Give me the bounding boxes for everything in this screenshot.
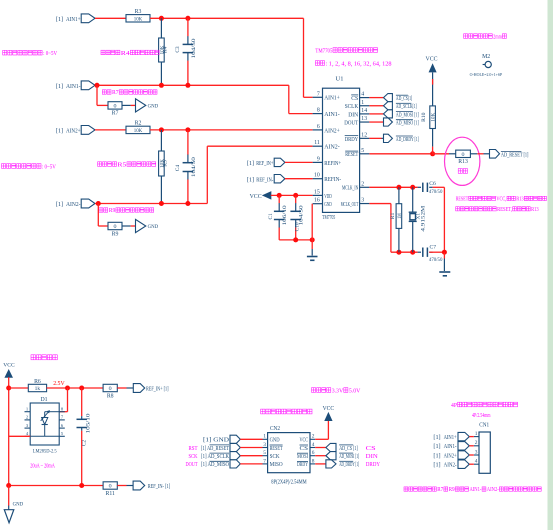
capacitor C10 [295, 195, 297, 203]
wire 2.5V net [47, 387, 104, 389]
svg-text:CS: CS [351, 95, 358, 102]
svg-text:AIN1+: AIN1+ [66, 16, 81, 23]
svg-text:8P(2X4P)/2.54MM: 8P(2X4P)/2.54MM [271, 478, 306, 485]
svg-text:R5: R5 [163, 160, 169, 167]
svg-text:U1: U1 [336, 76, 344, 83]
svg-text:13: 13 [361, 116, 367, 122]
junction C10 gnd [293, 237, 298, 242]
wire REF_IN- [285, 178, 313, 180]
svg-text:[1]: [1] [56, 16, 63, 23]
port AD_MOSI [384, 110, 393, 118]
svg-text:[1]: [1] [247, 176, 254, 183]
U1 pin 12 DRDY [360, 137, 370, 139]
svg-text:AIN2+: AIN2+ [444, 452, 457, 459]
svg-text:VCC: VCC [250, 194, 262, 200]
port CN2 left [1] GND [230, 435, 240, 443]
note remove R9 [99, 208, 103, 212]
junction RESET/R10 [430, 151, 435, 156]
junction MCLKOUT/X1 [410, 250, 415, 255]
svg-text:0: 0 [114, 104, 117, 110]
D1 zener symbol [42, 418, 48, 425]
CN2 pin 4 CS [310, 447, 315, 449]
diode D1 LM285 body [30, 403, 59, 445]
svg-text:2.5V: 2.5V [53, 381, 65, 387]
svg-text:20uA ~ 20mA: 20uA ~ 20mA [30, 463, 55, 469]
resistor R8 [103, 384, 117, 391]
CN2 pin 5 SCK [263, 455, 268, 457]
svg-text:VCC,: VCC, [496, 196, 506, 202]
svg-text:3: 3 [475, 449, 478, 455]
svg-text:0: 0 [109, 386, 112, 392]
junction AIN2-/R5 [159, 201, 164, 206]
svg-text:[1]: [1] [433, 462, 440, 469]
note remove R7 [102, 90, 106, 94]
svg-text:C4: C4 [175, 165, 181, 172]
svg-text:SCK: SCK [270, 453, 280, 460]
junction AIN1+/C3 [185, 16, 190, 21]
svg-text:VCC: VCC [323, 406, 335, 412]
svg-text:C1: C1 [268, 213, 274, 220]
wire R9 to GND [122, 225, 131, 227]
svg-text:[1] AD_SCLK: [1] AD_SCLK [201, 453, 229, 460]
svg-text:C7: C7 [430, 245, 437, 251]
svg-text:REF_IN- [1]: REF_IN- [1] [148, 483, 171, 490]
junction MCLKOUT/R1 [396, 250, 401, 255]
svg-text:GND: GND [13, 502, 24, 508]
note input range top [3, 50, 7, 55]
svg-text:5: 5 [263, 450, 266, 456]
wire AIN2+ net [150, 129, 313, 131]
ground GND AIN1- [136, 99, 146, 112]
svg-text:2: 2 [361, 181, 364, 187]
svg-text:RESET,: RESET, [497, 207, 512, 213]
svg-text:MCLK_IN: MCLK_IN [342, 185, 358, 192]
capacitor C2 [81, 388, 83, 416]
svg-text:C3: C3 [175, 46, 181, 53]
U1 pin 16 GND [313, 203, 323, 205]
wire R11 to port [117, 485, 126, 487]
svg-text:GND: GND [148, 104, 159, 110]
junction AIN2+/C4 [185, 127, 190, 132]
svg-text:AD_SCLK[1]: AD_SCLK[1] [396, 103, 417, 110]
wire ref vertical [8, 388, 10, 486]
svg-text:R7: R7 [437, 487, 443, 493]
wire AIN1+ to R3 [95, 17, 126, 19]
connector CN1 body [479, 432, 490, 473]
svg-text:CS: CS [300, 445, 309, 452]
capacitor C4 [187, 130, 189, 155]
resistor R7 [108, 102, 122, 109]
junction bottom/C2 [79, 483, 84, 488]
wire AIN2+ to R2 [95, 129, 126, 131]
svg-text:16: 16 [314, 198, 320, 204]
svg-text:14: 14 [361, 108, 367, 114]
junction MCLKIN/R1 [396, 185, 401, 190]
svg-text:15: 15 [314, 189, 320, 195]
svg-text:VCC: VCC [426, 57, 438, 63]
D1 internal wiring [45, 411, 60, 413]
U1 pin 3 MCLK_OUT [360, 203, 370, 205]
wire MCLK_IN net [369, 186, 417, 188]
capacitor C1 [278, 195, 280, 203]
svg-text:1k: 1k [35, 386, 41, 392]
junction AIN1-/R7 [95, 83, 100, 88]
U1 pin 2 MCLK_IN [360, 186, 370, 188]
note input range mid [2, 164, 6, 169]
junction MCLKIN/X1 [410, 185, 415, 190]
svg-text:6: 6 [312, 450, 315, 456]
svg-text:R6: R6 [34, 379, 41, 385]
svg-text:C2: C2 [82, 440, 88, 447]
junction AIN1+/R4 [159, 16, 164, 21]
junction bottom left [6, 483, 11, 488]
wire VDD net [271, 194, 313, 196]
svg-text:DIN: DIN [366, 454, 379, 460]
svg-text:4: 4 [475, 459, 478, 465]
junction D1 [65, 386, 70, 391]
wire CN2 AD_DRDY [1] [315, 463, 326, 465]
svg-text:12: 12 [361, 132, 367, 138]
svg-text:[1] GND: [1] GND [203, 437, 229, 444]
connector CN2 body [268, 433, 310, 473]
svg-text:10: 10 [314, 173, 320, 179]
wire CN1 [469, 436, 474, 438]
svg-text:104/50: 104/50 [299, 205, 305, 226]
port AD_RESET [490, 150, 500, 159]
svg-text:3: 3 [361, 198, 364, 204]
junction AIN1-/C3 [185, 83, 190, 88]
svg-text:D1: D1 [40, 397, 47, 403]
svg-text:: 1, 2, 4, 8, 16, 32, 64, 128: : 1, 2, 4, 8, 16, 32, 64, 128 [326, 60, 392, 67]
svg-text:5: 5 [361, 148, 364, 154]
svg-text:0: 0 [109, 484, 112, 490]
svg-text:AD_DRDY [1]: AD_DRDY [1] [339, 461, 359, 468]
CN1 pin 4 [474, 463, 479, 465]
port CN1 AIN1+ [458, 432, 469, 440]
svg-text:DOUT: DOUT [186, 462, 198, 468]
junction gnd rail [310, 237, 315, 242]
CN2 pin 1 GND [263, 438, 268, 440]
ground GND AIN2- [136, 219, 146, 232]
svg-text:[1]: [1] [247, 160, 254, 167]
svg-text:AIN2-: AIN2- [444, 462, 457, 469]
port CN2 left [1] AD_RESET [230, 443, 240, 451]
U1 pin 6 AIN2+ [313, 129, 323, 131]
U1 pin 13 DOUT [360, 121, 370, 123]
D1 pin 3 [25, 427, 31, 429]
ground bars U1 [307, 256, 318, 258]
svg-text:R10: R10 [421, 112, 427, 122]
svg-text:AIN2-: AIN2- [324, 144, 340, 151]
resistor R10 [432, 73, 434, 106]
svg-text:REF_IN-: REF_IN- [256, 176, 273, 183]
svg-text:0: 0 [462, 152, 465, 158]
junction VDD/C1 [277, 193, 282, 198]
svg-text:R1: R1 [390, 213, 396, 220]
svg-text:R13: R13 [458, 159, 468, 165]
resistor R11 [103, 482, 117, 489]
svg-text:RESET: RESET [345, 151, 358, 158]
note dual header [261, 409, 265, 414]
wire AIN2- to R9 [97, 204, 99, 227]
svg-text:6: 6 [317, 124, 320, 130]
svg-text:AIN2-: AIN2- [487, 487, 499, 493]
svg-text:1: 1 [263, 434, 266, 440]
svg-text:[1]: [1] [56, 201, 63, 208]
resistor R13 [456, 150, 471, 157]
svg-text:VCC: VCC [300, 437, 309, 444]
wire R8 to port [117, 387, 126, 389]
svg-text:GND: GND [148, 224, 159, 230]
svg-text:8: 8 [312, 458, 315, 464]
svg-text:2: 2 [312, 434, 315, 440]
wire R7 to GND [122, 104, 131, 106]
U1 pin 4 CS [360, 97, 370, 99]
svg-text:: 0~5V: : 0~5V [43, 50, 57, 57]
svg-text:[1] AD_MISO: [1] AD_MISO [201, 461, 229, 468]
svg-text:O-HOLE=2.0+1+SP: O-HOLE=2.0+1+SP [470, 72, 503, 77]
svg-text:7: 7 [263, 458, 266, 464]
svg-text:AIN1-: AIN1- [66, 83, 81, 90]
wire SCLK [369, 105, 383, 107]
svg-text:AD_MOSI [1]: AD_MOSI [1] [339, 453, 359, 460]
svg-text:4: 4 [361, 92, 364, 98]
svg-text:1M: 1M [397, 213, 403, 219]
note signal ground [404, 487, 408, 491]
svg-text:[1] AD_RESET: [1] AD_RESET [201, 445, 229, 452]
svg-text:AIN1-: AIN1- [324, 111, 340, 118]
note R13 not mounted [458, 169, 462, 174]
svg-text:GND: GND [270, 437, 280, 444]
wire CN2 left [240, 455, 262, 457]
junction C2 [79, 386, 84, 391]
wire CN2 AD_MOSI [1] [315, 455, 326, 457]
svg-text:4: 4 [312, 442, 315, 448]
port AD_DRDY [384, 134, 393, 142]
svg-text:M2: M2 [482, 54, 490, 60]
resistor R9 [108, 222, 122, 229]
port CN2 left [1] AD_MISO [230, 460, 240, 468]
svg-text:SCK: SCK [189, 454, 199, 460]
svg-text:3: 3 [263, 442, 266, 448]
D1 pin 5 [59, 435, 65, 437]
capacitor C7 [418, 251, 421, 253]
note mounting hole [464, 34, 468, 39]
wire CN1 [469, 445, 474, 447]
svg-text:REFIN+: REFIN+ [324, 160, 341, 167]
wire AIN2- net [95, 203, 207, 205]
wire DRDY [369, 137, 381, 139]
svg-text:0: 0 [114, 224, 117, 230]
CN1 pin 1 [474, 436, 479, 438]
svg-text:REF_IN+ [1]: REF_IN+ [1] [146, 385, 169, 392]
svg-text:8: 8 [317, 108, 320, 114]
wire CN2 VCC [315, 438, 328, 440]
D1 pin 1 [25, 411, 31, 413]
resistor R5 [160, 130, 162, 151]
svg-text:DOUT: DOUT [344, 119, 358, 126]
port CN1 AIN1- [458, 442, 469, 450]
U1 pin 1 SCLK [360, 105, 370, 107]
note reference source [31, 355, 36, 360]
svg-text:CN2: CN2 [270, 426, 280, 432]
svg-text:REF_IN+: REF_IN+ [256, 160, 273, 167]
note remove R5 [98, 162, 102, 167]
svg-text:R7: R7 [112, 111, 119, 117]
svg-text:AD_CS[1]: AD_CS[1] [396, 95, 412, 102]
wire CN2 left [240, 447, 262, 449]
CN1 pin 2 [474, 445, 479, 447]
wire CN1 [469, 454, 474, 456]
svg-text:VCC: VCC [3, 363, 15, 369]
svg-text:2: 2 [475, 440, 478, 446]
svg-text:RST: RST [189, 446, 198, 452]
svg-text:AD_CS [1]: AD_CS [1] [339, 445, 358, 452]
svg-text:10K: 10K [134, 16, 143, 22]
svg-text:R4: R4 [163, 47, 169, 54]
port REF_IN+ out [133, 384, 144, 393]
wire RESET to R13 [433, 153, 449, 155]
svg-text:4P: 4P [451, 402, 457, 409]
note remove R4 [101, 50, 105, 55]
U1 pin 11 AIN2- [313, 145, 323, 147]
svg-text:AD_RESET [1]: AD_RESET [1] [501, 151, 529, 158]
svg-text:AIN2-: AIN2- [66, 201, 81, 208]
wire CN2 left [240, 463, 262, 465]
resistor R1 [398, 187, 400, 203]
svg-text:: 0~5V: : 0~5V [42, 163, 56, 170]
U1 pin 5 RESET [360, 153, 370, 155]
wire to crystal gnd [443, 252, 445, 258]
svg-text:AIN2+: AIN2+ [324, 127, 340, 134]
svg-text:11: 11 [314, 140, 320, 146]
svg-text:R3: R3 [135, 9, 142, 15]
svg-text:R9: R9 [449, 487, 455, 493]
wire DOUT [369, 121, 383, 123]
svg-text:AIN1-: AIN1- [469, 487, 481, 493]
svg-text:DRDY: DRDY [366, 462, 381, 468]
ground GND ref [4, 510, 14, 523]
svg-text:2mm: 2mm [493, 34, 502, 40]
U1 pin 15 VDD [313, 194, 323, 196]
port CN1 AIN2- [458, 460, 469, 468]
wire C7 to gnd [429, 251, 444, 253]
svg-text:GND: GND [324, 201, 332, 208]
svg-text:3.3V: 3.3V [332, 387, 344, 394]
port AD_CS [384, 94, 393, 102]
U1 pin 9 REFIN+ [313, 161, 323, 163]
wire to R6 [9, 387, 29, 389]
port CN2 AD_DRDY [1] [326, 460, 336, 468]
svg-text:REFIN-: REFIN- [324, 176, 341, 183]
wire AIN1- net [95, 84, 289, 86]
U1 pin 10 REFIN- [313, 178, 323, 180]
U1 pin 7 AIN1+ [313, 96, 323, 98]
port CN1 AIN2+ [458, 451, 469, 459]
junction AIN1-/R4 [159, 83, 164, 88]
D1 pin 7 [59, 419, 65, 421]
port AD_SCLK [384, 102, 393, 110]
svg-text:VDD: VDD [324, 193, 332, 200]
svg-text:106/10: 106/10 [282, 205, 288, 226]
wire RESET net [369, 153, 432, 155]
CN1 pin 3 [474, 454, 479, 456]
svg-text:SCLK: SCLK [345, 103, 359, 110]
resistor R4 [160, 18, 162, 38]
svg-text:AIN1+: AIN1+ [444, 434, 457, 441]
junction AIN2-/R9 [96, 201, 101, 206]
svg-text:AD_MISO [1]: AD_MISO [1] [396, 120, 419, 127]
port CN2 AD_CS [1] [326, 443, 336, 451]
U1 pin 8 AIN1- [313, 113, 323, 115]
resistor R6 [28, 384, 46, 391]
crystal X1 [412, 187, 414, 212]
svg-text:4P/2.54mm: 4P/2.54mm [472, 413, 491, 419]
svg-text:R13: R13 [516, 196, 524, 202]
svg-text:4.9152M: 4.9152M [421, 205, 427, 231]
note RESET tied to VCC line2 [456, 207, 460, 211]
wire D1 pin8 up [67, 388, 69, 412]
svg-text:470/50: 470/50 [429, 189, 443, 195]
svg-text:[1]: [1] [56, 83, 63, 90]
wire CN2 left [240, 438, 262, 440]
svg-text:AD_DRDY [1]: AD_DRDY [1] [396, 136, 419, 143]
junction AIN2-/C4 [185, 201, 190, 206]
svg-text:DRDY: DRDY [345, 136, 359, 143]
junction gnd crystal [442, 250, 447, 255]
svg-text:9: 9 [317, 156, 320, 162]
wire D1 pin4 [9, 435, 31, 437]
svg-text:DIN: DIN [348, 111, 358, 118]
wire DIN [369, 113, 383, 115]
svg-text:AIN2+: AIN2+ [66, 128, 81, 135]
svg-text:MISO: MISO [270, 461, 283, 468]
svg-text:R5: R5 [117, 162, 126, 168]
svg-text:104/50: 104/50 [191, 38, 197, 59]
svg-text:105/10: 105/10 [85, 413, 91, 434]
D1 pin 6 [59, 427, 65, 429]
wire to GND ref [8, 486, 10, 506]
svg-text:470/50: 470/50 [429, 257, 443, 263]
svg-text:7: 7 [317, 91, 320, 97]
port CN2 left [1] AD_SCLK [230, 452, 240, 460]
svg-text:[1]: [1] [433, 443, 440, 450]
capacitor C6 [418, 186, 421, 188]
CN2 pin 3 RESET [263, 447, 268, 449]
wire MCLK_OUT net [369, 203, 391, 205]
wire R13 to port [470, 153, 477, 155]
capacitor C3 [187, 18, 189, 36]
junction AIN2+/R5 [159, 127, 164, 132]
resistor R2 [126, 126, 150, 133]
wire CN2 AD_CS [1] [315, 447, 326, 449]
svg-text:LM285D-2.5: LM285D-2.5 [33, 448, 57, 454]
wire GND pin16 down [311, 204, 313, 249]
svg-text:[1]: [1] [433, 434, 440, 441]
port AD_MISO [384, 118, 393, 126]
port REF_IN- out [133, 481, 145, 490]
svg-text:5.0V: 5.0V [349, 387, 361, 394]
svg-text:CN1: CN1 [479, 423, 489, 429]
wire C6 to gnd [433, 186, 445, 188]
CN2 pin 6 MOSI [310, 455, 315, 457]
svg-text:[1]: [1] [56, 128, 63, 135]
D1 pin 2 [25, 419, 31, 421]
resistor R3 [126, 15, 150, 22]
CN2 pin 7 MISO [263, 463, 268, 465]
svg-text:10K: 10K [431, 112, 437, 121]
svg-text:CS: CS [366, 446, 376, 452]
